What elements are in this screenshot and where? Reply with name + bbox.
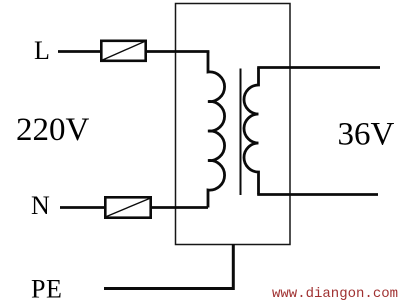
wire N lead xyxy=(60,206,104,209)
svg-text:220V: 220V xyxy=(16,112,90,148)
fuse FU1 (L line) xyxy=(101,41,145,61)
svg-text:www.diangon.com: www.diangon.com xyxy=(272,286,398,302)
transformer T1 primary winding xyxy=(208,52,225,208)
svg-text:L: L xyxy=(34,36,50,65)
transformer T1 enclosure box xyxy=(176,4,291,245)
transformer T1 secondary winding xyxy=(244,68,259,195)
transformer T1 core xyxy=(240,69,242,196)
svg-text:PE: PE xyxy=(31,275,62,304)
fuse FU2 (N line) xyxy=(105,197,150,217)
wire secondary top output xyxy=(257,66,380,69)
wire secondary bottom output xyxy=(257,193,378,196)
wire PE ground connection xyxy=(104,244,233,289)
wire L lead xyxy=(58,50,100,53)
wire fuse FU1 to primary winding xyxy=(147,50,209,53)
svg-text:36V: 36V xyxy=(338,117,395,153)
svg-text:N: N xyxy=(31,191,50,220)
wire fuse FU2 to primary winding xyxy=(151,206,208,209)
